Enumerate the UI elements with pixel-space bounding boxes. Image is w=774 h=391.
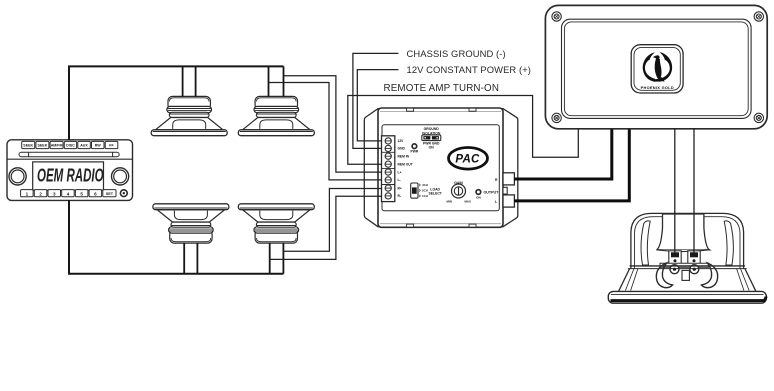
svg-text:12V: 12V	[398, 139, 405, 143]
radio head unit OEM RADIO	[7, 140, 133, 201]
svg-text:PWR: PWR	[411, 150, 419, 154]
svg-text:2: 2	[39, 191, 42, 196]
terminal labels	[398, 139, 413, 198]
speaker front-right	[238, 96, 314, 135]
PAC line output converter U1	[364, 108, 518, 227]
svg-text:12V CONSTANT POWER (+): 12V CONSTANT POWER (+)	[407, 64, 532, 75]
svg-text:L: L	[495, 200, 497, 204]
phoenix logo	[643, 52, 672, 82]
subwoofer (rear view)	[608, 213, 766, 303]
terminal screws 1-8	[385, 138, 391, 199]
left wing	[643, 52, 656, 82]
speaker front-left	[151, 96, 227, 135]
sub cone sides	[619, 269, 756, 292]
right wing	[659, 52, 672, 82]
RCA jack divider	[503, 187, 507, 194]
svg-text:MIN: MIN	[447, 199, 452, 203]
bottom bowl	[651, 79, 664, 82]
wire radio-to-rear-speaker bus (bottom)	[69, 200, 283, 274]
svg-text:SELECT: SELECT	[429, 192, 443, 196]
amp corner screws	[552, 12, 764, 123]
svg-text:3: 3	[53, 191, 56, 196]
speaker rear-right	[238, 204, 314, 243]
svg-text:L+: L+	[398, 170, 402, 174]
sub side vents	[641, 221, 650, 265]
load select switch	[411, 183, 418, 198]
wire 12V constant power to terminal 1	[357, 70, 398, 141]
svg-text:CHASSIS GROUND (-): CHASSIS GROUND (-)	[407, 48, 506, 59]
sub terminal frame	[660, 263, 709, 267]
PAC case	[378, 108, 503, 227]
svg-text:2CH: 2CH	[422, 189, 428, 193]
sub spring clips	[670, 265, 679, 274]
svg-text:ON: ON	[429, 145, 435, 149]
wire subwoofer lead right	[693, 128, 695, 253]
svg-text:4CH: 4CH	[422, 183, 428, 187]
RCA output jack R	[503, 173, 514, 185]
sub magnet boot	[657, 214, 710, 250]
sub terminal block right	[688, 251, 700, 265]
body and tail	[655, 59, 662, 80]
radio preset buttons	[21, 190, 116, 197]
svg-text:AM/FM: AM/FM	[51, 144, 63, 148]
amplifier (Phoenix Gold)	[545, 5, 767, 128]
amp logo badge	[631, 45, 683, 93]
wire R- input to terminal 8	[270, 196, 382, 259]
sub basket rim	[630, 265, 745, 267]
wire radio-to-front-speaker bus (top)	[69, 66, 284, 139]
svg-text:PHOENIX GOLD: PHOENIX GOLD	[641, 85, 674, 90]
wire L+ input to terminal 5	[284, 76, 383, 172]
sub rear dome	[631, 213, 744, 268]
svg-text:L-: L-	[398, 178, 401, 182]
output LED	[476, 190, 481, 195]
svg-text:AUX: AUX	[80, 144, 88, 148]
wire chassis ground to terminal 2	[353, 53, 399, 148]
RCA output jack L	[503, 195, 514, 207]
ground isolation switch	[422, 127, 441, 149]
radio small knob	[120, 190, 127, 197]
speaker rear-left	[153, 204, 229, 243]
svg-text:REM OUT: REM OUT	[398, 163, 413, 167]
svg-text:DISC: DISC	[66, 144, 75, 148]
radio left knob	[9, 168, 26, 185]
wire RCA cable 1 PAC output to amp	[514, 130, 612, 180]
svg-text:OEM RADIO: OEM RADIO	[37, 166, 104, 186]
radio CD slot	[19, 152, 119, 156]
svg-text:PAC: PAC	[455, 154, 480, 166]
head	[655, 55, 659, 59]
radio display	[33, 162, 104, 190]
wire RCA cable 2 PAC output to amp	[514, 130, 629, 201]
wire R+ input to terminal 7	[283, 189, 382, 252]
PAC mounting plate	[364, 109, 518, 227]
svg-text:SET: SET	[106, 192, 114, 196]
sub mounting flange	[608, 291, 766, 303]
wire speaker4 leads	[270, 243, 284, 274]
wire remote amp turn-on: REM OUT terminal 4 to amplifier	[348, 96, 579, 165]
svg-text:SEEK: SEEK	[38, 144, 48, 148]
svg-text:5: 5	[80, 191, 83, 196]
svg-text:GND: GND	[398, 147, 406, 151]
wire speaker2 leads	[269, 66, 284, 96]
wire subwoofer lead left	[674, 128, 676, 253]
svg-text:SEEK: SEEK	[23, 144, 33, 148]
PAC terminal strip	[382, 136, 395, 202]
svg-text:R-: R-	[398, 194, 401, 198]
sub terminal block left	[669, 251, 681, 265]
svg-text:1CH: 1CH	[422, 194, 428, 198]
PAC logo	[449, 148, 488, 170]
power LED	[412, 144, 417, 149]
svg-text:RW: RW	[95, 144, 102, 148]
radio right knob	[112, 168, 129, 185]
svg-text:ON: ON	[476, 195, 481, 199]
svg-text:1: 1	[26, 191, 29, 196]
wire speaker3 leads	[184, 243, 197, 274]
svg-text:R+: R+	[398, 186, 402, 190]
svg-text:MAX: MAX	[465, 199, 471, 203]
svg-text:OUTPUT: OUTPUT	[484, 190, 500, 194]
svg-text:4: 4	[67, 191, 70, 196]
svg-text:6: 6	[94, 191, 97, 196]
wire L- input to terminal 6	[269, 83, 383, 180]
svg-text:REM IN: REM IN	[398, 155, 410, 159]
svg-text:REMOTE AMP TURN-ON: REMOTE AMP TURN-ON	[384, 83, 500, 94]
wire speaker1 leads	[183, 66, 196, 96]
